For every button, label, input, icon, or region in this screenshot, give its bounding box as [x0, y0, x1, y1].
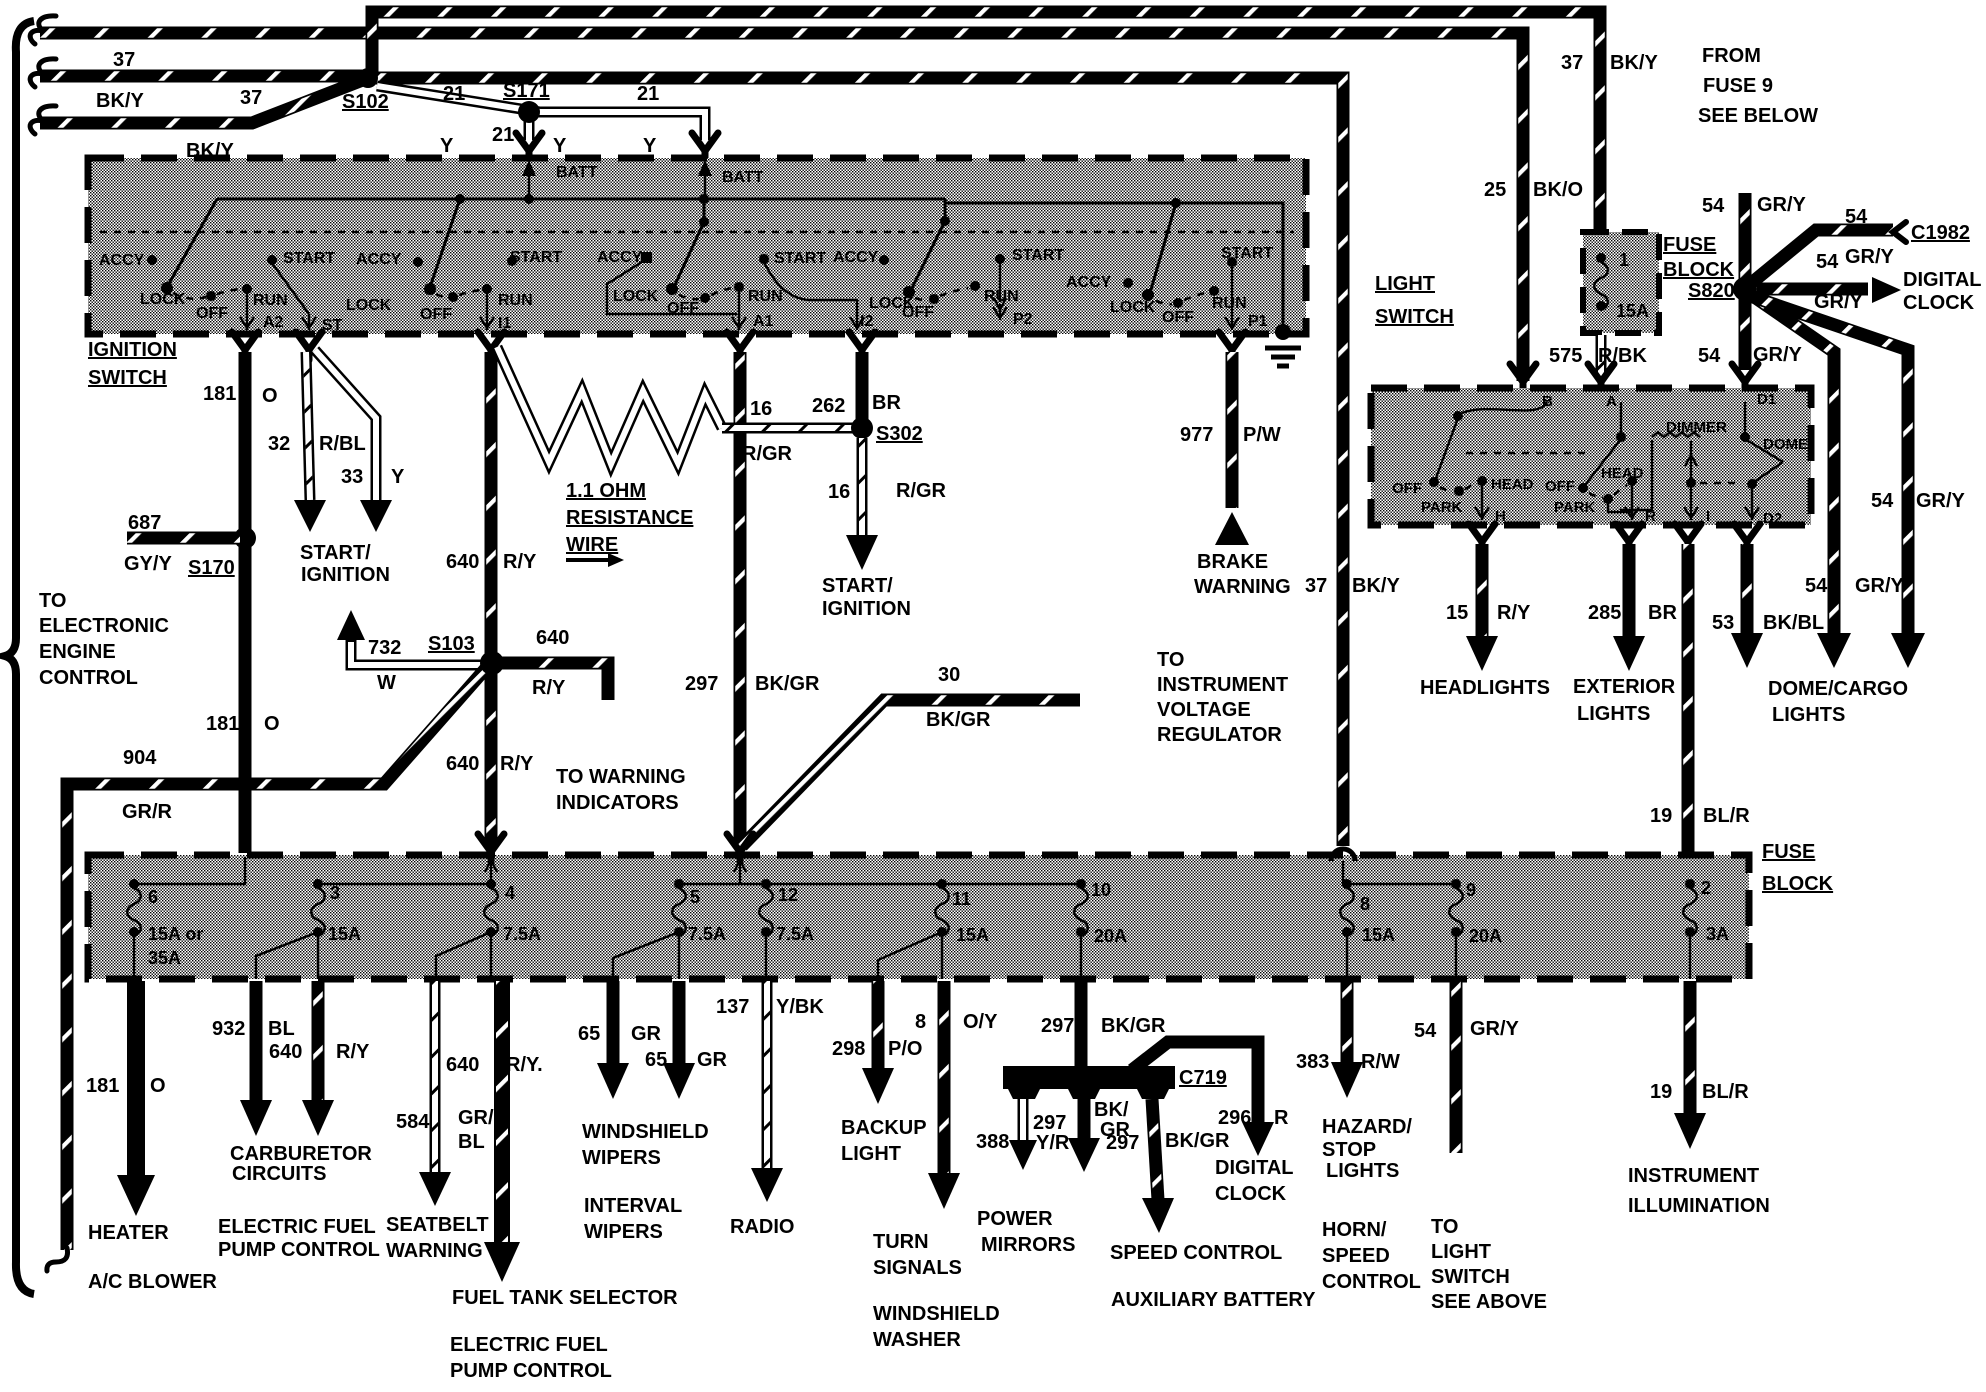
svg-text:ELECTRONIC: ELECTRONIC — [39, 615, 169, 637]
wire 137 Y/BK to radio — [716, 981, 824, 1238]
svg-text:1.1 OHM: 1.1 OHM — [566, 480, 646, 502]
svg-text:BL/R: BL/R — [1702, 1081, 1749, 1103]
svg-text:640: 640 — [269, 1041, 302, 1063]
svg-text:CIRCUITS: CIRCUITS — [232, 1163, 326, 1185]
svg-text:53: 53 — [1712, 612, 1734, 634]
svg-text:Y: Y — [440, 135, 454, 157]
svg-text:BRAKE: BRAKE — [1197, 551, 1268, 573]
splice S820 — [1688, 277, 1757, 302]
BATT terminal 2 — [698, 160, 764, 199]
svg-text:640: 640 — [446, 753, 479, 775]
svg-text:932: 932 — [212, 1018, 245, 1040]
svg-text:TO: TO — [1431, 1216, 1458, 1238]
resistance wire 1.1 OHM (zigzag) — [497, 347, 722, 567]
light switch box — [1371, 273, 1811, 525]
svg-text:20A: 20A — [1469, 926, 1502, 946]
wire from S102 up to top run and right to fuse 1 (37 BK/Y) — [372, 12, 1658, 236]
ignition switch gang 3 (A1) — [597, 222, 783, 330]
wire 297 BK/GR from A1 to fuse block — [685, 352, 820, 848]
label FROM FUSE 9 SEE BELOW — [1698, 45, 1818, 127]
svg-text:Y/BK: Y/BK — [776, 996, 824, 1018]
wire 21 Y from S102 to S171 and BATT feeds — [377, 83, 705, 157]
svg-text:383: 383 — [1296, 1051, 1329, 1073]
wire 65 GR to windshield wipers — [578, 981, 709, 1169]
svg-text:ACCY: ACCY — [833, 249, 879, 266]
svg-text:SEE BELOW: SEE BELOW — [1698, 105, 1818, 127]
svg-text:INTERVAL: INTERVAL — [584, 1195, 682, 1217]
svg-text:7.5A: 7.5A — [688, 924, 726, 944]
svg-text:FUEL TANK SELECTOR: FUEL TANK SELECTOR — [452, 1287, 678, 1309]
wire 297 BK/GR (short) below C719 — [1068, 1099, 1131, 1172]
wire 54 GR/Y from fuse 9 (to light switch above) — [1414, 981, 1547, 1313]
label TO ELECTRONIC ENGINE CONTROL — [39, 590, 169, 689]
wire 298 P/O to backup light — [832, 981, 927, 1165]
svg-text:START: START — [510, 249, 562, 266]
svg-text:TO: TO — [39, 590, 66, 612]
svg-text:298: 298 — [832, 1038, 865, 1060]
svg-text:ENGINE: ENGINE — [39, 641, 116, 663]
fuse 11 15A — [878, 879, 989, 979]
svg-text:297: 297 — [685, 673, 718, 695]
wire 383 R/W to hazard/stop lights — [1296, 981, 1421, 1293]
svg-text:POWER: POWER — [977, 1208, 1053, 1230]
svg-text:ACCY: ACCY — [1066, 274, 1112, 291]
svg-text:WIPERS: WIPERS — [582, 1147, 661, 1169]
fuse 9 20A — [1449, 879, 1502, 979]
svg-text:W: W — [377, 672, 396, 694]
svg-text:O: O — [264, 713, 280, 735]
svg-text:3A: 3A — [1706, 924, 1729, 944]
svg-text:37: 37 — [113, 49, 135, 71]
svg-text:AUXILIARY BATTERY: AUXILIARY BATTERY — [1111, 1289, 1316, 1311]
wire 54 GR/Y from S820 down to D1 — [1698, 296, 1803, 370]
svg-text:RUN: RUN — [498, 292, 533, 309]
wire 25 BK/O label (on wire A vertical) — [1484, 179, 1583, 201]
ignition switch gang 1 (A2/ST) — [99, 199, 343, 334]
svg-text:WIRE: WIRE — [566, 534, 618, 556]
svg-text:INDICATORS: INDICATORS — [556, 792, 679, 814]
svg-text:687: 687 — [128, 512, 161, 534]
svg-text:BACKUP: BACKUP — [841, 1117, 927, 1139]
svg-text:21: 21 — [443, 83, 465, 105]
svg-text:OFF: OFF — [902, 304, 934, 321]
ignition switch gang 5 (P2/P1) — [945, 198, 1283, 330]
connector at BATT 1 — [516, 133, 542, 161]
svg-text:IGNITION: IGNITION — [301, 564, 390, 586]
svg-text:HEADLIGHTS: HEADLIGHTS — [1420, 677, 1550, 699]
svg-text:SWITCH: SWITCH — [1431, 1266, 1510, 1288]
wire 53 BK/BL to dome/cargo — [1712, 544, 1908, 726]
fuse block (upper) box — [1583, 232, 1735, 333]
svg-text:PUMP CONTROL: PUMP CONTROL — [450, 1360, 612, 1382]
svg-text:584: 584 — [396, 1111, 430, 1133]
wire 640 R/Y to fuel tank selector — [446, 981, 678, 1382]
wire 732 W — [337, 610, 484, 694]
svg-text:575: 575 — [1549, 345, 1582, 367]
svg-text:54: 54 — [1698, 345, 1721, 367]
wire 37 BK/Y (row B into S102) — [30, 49, 366, 112]
svg-text:1: 1 — [1619, 250, 1629, 270]
svg-text:5: 5 — [690, 887, 700, 907]
svg-text:DOME/CARGO: DOME/CARGO — [1768, 678, 1908, 700]
svg-text:54: 54 — [1871, 490, 1894, 512]
label TO WARNING INDICATORS — [556, 766, 686, 814]
svg-text:A/C BLOWER: A/C BLOWER — [88, 1271, 217, 1293]
wire 15 R/Y to headlights — [1420, 544, 1550, 699]
svg-text:HORN/: HORN/ — [1322, 1219, 1387, 1241]
wire 584 GR/BL to seatbelt warning — [386, 981, 494, 1262]
svg-text:BL: BL — [268, 1018, 295, 1040]
svg-text:Y: Y — [553, 135, 567, 157]
svg-text:BATT: BATT — [722, 169, 764, 186]
svg-text:GR/: GR/ — [458, 1107, 494, 1129]
connector at ignition P1 — [1219, 332, 1245, 360]
svg-text:INSTRUMENT: INSTRUMENT — [1157, 674, 1288, 696]
svg-text:904: 904 — [123, 747, 157, 769]
svg-text:START: START — [283, 250, 335, 267]
wire 65 GR to interval wipers — [584, 981, 728, 1243]
wire 977 P/W to brake warning — [1180, 352, 1291, 598]
fuse 2 3A — [1683, 878, 1729, 979]
svg-text:37: 37 — [1305, 575, 1327, 597]
wire 54 GR/Y above S820 — [1702, 193, 1807, 282]
svg-text:6: 6 — [148, 887, 158, 907]
fuse 10 20A — [1074, 879, 1127, 979]
svg-text:WARNING: WARNING — [1194, 576, 1291, 598]
svg-text:S103: S103 — [428, 633, 475, 655]
svg-text:BR: BR — [1648, 602, 1677, 624]
svg-text:8: 8 — [1360, 894, 1370, 914]
wire 640 R/Y to carburetor circuits — [218, 981, 380, 1261]
splice S103 — [428, 633, 502, 673]
svg-text:BK/O: BK/O — [1533, 179, 1583, 201]
svg-text:4: 4 — [505, 883, 515, 903]
fuse 8 15A — [1340, 879, 1395, 979]
svg-text:3: 3 — [330, 883, 340, 903]
wire 181 O from A2 to fuse block — [203, 352, 280, 853]
svg-text:640: 640 — [446, 551, 479, 573]
svg-text:CONTROL: CONTROL — [39, 667, 138, 689]
svg-text:VOLTAGE: VOLTAGE — [1157, 699, 1251, 721]
svg-text:WARNING: WARNING — [386, 1240, 483, 1262]
wire 575 R/BK — [1549, 335, 1647, 372]
wire 687 GY/Y — [124, 512, 240, 575]
BATT terminal 1 — [522, 160, 598, 199]
svg-text:BK/Y: BK/Y — [1610, 52, 1658, 74]
svg-text:R/Y: R/Y — [503, 551, 537, 573]
connector at ignition I2 — [849, 332, 875, 360]
svg-text:CONTROL: CONTROL — [1322, 1271, 1421, 1293]
page continuation brace (left edge) — [5, 21, 34, 1294]
svg-text:15A: 15A — [1362, 925, 1395, 945]
svg-text:297: 297 — [1033, 1112, 1066, 1134]
ignition switch box — [88, 158, 1306, 389]
svg-text:15A: 15A — [1616, 301, 1649, 321]
connector at ignition I1 — [478, 332, 504, 360]
svg-text:IGNITION: IGNITION — [88, 339, 177, 361]
svg-text:65: 65 — [578, 1023, 600, 1045]
svg-text:TO: TO — [1157, 649, 1184, 671]
svg-text:GR: GR — [697, 1049, 728, 1071]
svg-text:R/Y.: R/Y. — [506, 1054, 543, 1076]
svg-text:START/: START/ — [300, 542, 371, 564]
svg-text:WINDSHIELD: WINDSHIELD — [582, 1121, 709, 1143]
svg-text:R: R — [1274, 1107, 1289, 1129]
light switch interior — [1392, 391, 1808, 527]
svg-text:C719: C719 — [1179, 1067, 1227, 1089]
splice S302 — [851, 417, 923, 445]
svg-text:S302: S302 — [876, 423, 923, 445]
svg-text:BK/GR: BK/GR — [926, 709, 991, 731]
wire 33 Y (start/ignition) — [300, 350, 405, 586]
svg-text:CARBURETOR: CARBURETOR — [230, 1143, 372, 1165]
svg-text:25: 25 — [1484, 179, 1506, 201]
svg-text:R/Y: R/Y — [500, 753, 534, 775]
connector at fuse block entry (297 BK/GR) — [727, 834, 753, 884]
svg-text:OFF: OFF — [1545, 478, 1575, 495]
svg-text:GR/R: GR/R — [122, 801, 173, 823]
svg-text:LOCK: LOCK — [613, 288, 659, 305]
svg-text:IGNITION: IGNITION — [822, 598, 911, 620]
svg-text:HEAD: HEAD — [1491, 476, 1534, 493]
svg-text:7.5A: 7.5A — [776, 924, 814, 944]
wire 19 BL/R from light switch I to fuse 2 — [1650, 544, 1750, 879]
svg-text:SWITCH: SWITCH — [88, 367, 167, 389]
ground (ignition switch P-circuit) — [1265, 324, 1301, 366]
splice S170 — [188, 527, 256, 579]
wire 37 BK/Y (top row A) — [30, 16, 1523, 381]
svg-text:TURN: TURN — [873, 1231, 929, 1253]
svg-text:RUN: RUN — [1212, 295, 1247, 312]
svg-text:LIGHTS: LIGHTS — [1577, 703, 1650, 725]
svg-text:DIGITAL: DIGITAL — [1903, 269, 1982, 291]
svg-text:R/Y: R/Y — [1497, 602, 1531, 624]
svg-text:EXTERIOR: EXTERIOR — [1573, 676, 1676, 698]
svg-text:BK/GR: BK/GR — [1165, 1130, 1230, 1152]
svg-text:BATT: BATT — [556, 164, 598, 181]
svg-text:STOP: STOP — [1322, 1139, 1376, 1161]
wire 181 O to heater / AC blower — [86, 981, 217, 1293]
svg-text:LIGHTS: LIGHTS — [1772, 704, 1845, 726]
svg-text:BK/Y: BK/Y — [96, 90, 144, 112]
svg-text:START/: START/ — [822, 575, 893, 597]
svg-text:SIGNALS: SIGNALS — [873, 1257, 962, 1279]
svg-text:732: 732 — [368, 637, 401, 659]
svg-text:SWITCH: SWITCH — [1375, 306, 1454, 328]
svg-text:LOCK: LOCK — [140, 291, 186, 308]
svg-text:START: START — [1012, 247, 1064, 264]
svg-text:BK/BL: BK/BL — [1763, 612, 1824, 634]
connector at BATT 2 — [692, 133, 718, 161]
wire 8 O/Y to turn signals — [873, 981, 1000, 1351]
svg-text:LIGHTS: LIGHTS — [1326, 1160, 1399, 1182]
connector at light switch R output — [1616, 524, 1642, 552]
svg-text:RUN: RUN — [984, 288, 1019, 305]
svg-text:33: 33 — [341, 466, 363, 488]
svg-text:SEATBELT: SEATBELT — [386, 1214, 489, 1236]
svg-text:RADIO: RADIO — [730, 1216, 794, 1238]
fuse 12 7.5A — [759, 879, 814, 979]
splice S102 — [342, 68, 389, 113]
svg-text:P1: P1 — [1248, 313, 1268, 330]
svg-text:ACCY: ACCY — [356, 251, 402, 268]
svg-text:P/W: P/W — [1243, 424, 1281, 446]
svg-text:S170: S170 — [188, 557, 235, 579]
svg-text:R/BL: R/BL — [319, 433, 366, 455]
connector at light switch I output — [1675, 524, 1701, 552]
fuse 4 7.5A — [436, 879, 541, 979]
splice S103 dot — [480, 651, 504, 675]
wire 16 R/GR down (start/ignition) — [822, 438, 947, 620]
wire 640 R/Y from I1 through S103 to fuse block — [446, 352, 537, 848]
svg-text:REGULATOR: REGULATOR — [1157, 724, 1282, 746]
svg-text:21: 21 — [637, 83, 659, 105]
svg-text:GR: GR — [631, 1023, 662, 1045]
svg-text:O: O — [150, 1075, 166, 1097]
svg-text:PARK: PARK — [1421, 499, 1463, 516]
svg-text:388: 388 — [976, 1131, 1009, 1153]
svg-text:ILLUMINATION: ILLUMINATION — [1628, 1195, 1770, 1217]
svg-text:OFF: OFF — [1392, 480, 1422, 497]
svg-text:BLOCK: BLOCK — [1762, 873, 1834, 895]
svg-text:GR/Y: GR/Y — [1814, 291, 1864, 313]
svg-text:ACCY: ACCY — [597, 249, 643, 266]
connector at ignition ST — [296, 332, 322, 360]
svg-text:START: START — [1221, 245, 1273, 262]
svg-text:C1982: C1982 — [1911, 222, 1970, 244]
svg-text:ELECTRIC FUEL: ELECTRIC FUEL — [218, 1216, 376, 1238]
svg-text:LOCK: LOCK — [346, 297, 392, 314]
svg-text:GR/Y: GR/Y — [1855, 575, 1905, 597]
svg-text:OFF: OFF — [196, 305, 228, 322]
svg-text:O: O — [262, 385, 278, 407]
svg-text:15A: 15A — [956, 925, 989, 945]
fuse 5 7.5A — [613, 879, 726, 979]
svg-text:Y: Y — [643, 135, 657, 157]
svg-text:181: 181 — [206, 713, 239, 735]
svg-text:Y: Y — [391, 466, 405, 488]
svg-text:35A: 35A — [148, 948, 181, 968]
wire 296 R to digital clock — [1132, 1042, 1294, 1205]
wire 54 GR/Y diagonal 2 to dome/cargo — [1750, 296, 1966, 668]
svg-text:RESISTANCE: RESISTANCE — [566, 507, 693, 529]
svg-text:15: 15 — [1446, 602, 1468, 624]
svg-text:DIGITAL: DIGITAL — [1215, 1157, 1294, 1179]
svg-text:RUN: RUN — [253, 292, 288, 309]
ignition gang dashed line — [100, 231, 1294, 234]
crossover hop at fuse block entry (37 BK/Y) — [1331, 849, 1355, 861]
svg-text:LOCK: LOCK — [1110, 299, 1156, 316]
svg-text:S102: S102 — [342, 91, 389, 113]
svg-text:RUN: RUN — [748, 288, 783, 305]
svg-text:Y/R: Y/R — [1036, 1132, 1070, 1154]
svg-text:19: 19 — [1650, 1081, 1672, 1103]
svg-text:21: 21 — [492, 124, 514, 146]
svg-text:8: 8 — [915, 1011, 926, 1033]
wire 297 BK/GR to speed control — [1106, 1099, 1316, 1311]
svg-text:B: B — [1542, 393, 1553, 410]
svg-text:2: 2 — [1701, 878, 1711, 898]
svg-text:OFF: OFF — [667, 300, 699, 317]
svg-text:BL/R: BL/R — [1703, 805, 1750, 827]
svg-text:CLOCK: CLOCK — [1215, 1183, 1287, 1205]
wire 32 R/BL (start/ignition) — [268, 352, 366, 532]
svg-text:LIGHT: LIGHT — [1375, 273, 1435, 295]
svg-text:GR/Y: GR/Y — [1757, 194, 1807, 216]
svg-text:FUSE: FUSE — [1762, 841, 1815, 863]
svg-text:ACCY: ACCY — [99, 252, 145, 269]
wire 285 BR to exterior lights — [1573, 544, 1677, 725]
svg-text:16: 16 — [750, 398, 772, 420]
svg-text:R/W: R/W — [1361, 1051, 1400, 1073]
connector at light switch D2 output — [1734, 524, 1760, 552]
connector C719 — [1003, 1066, 1227, 1099]
wire 262 BR from I2 to S302 — [812, 352, 901, 420]
connector at light switch D1 — [1732, 364, 1758, 392]
wire 54 GR/Y to digital clock (arrow right) — [1757, 269, 1982, 314]
svg-text:BK/GR: BK/GR — [755, 673, 820, 695]
svg-text:37: 37 — [1561, 52, 1583, 74]
svg-text:54: 54 — [1816, 251, 1839, 273]
connector at ignition A1 — [727, 332, 753, 360]
fuse 3 15A — [256, 879, 361, 979]
svg-text:12: 12 — [778, 885, 798, 905]
svg-text:WIPERS: WIPERS — [584, 1221, 663, 1243]
svg-text:HEATER: HEATER — [88, 1222, 169, 1244]
svg-text:LIGHT: LIGHT — [841, 1143, 901, 1165]
svg-text:A1: A1 — [753, 313, 774, 330]
svg-text:9: 9 — [1466, 880, 1476, 900]
svg-text:LIGHT: LIGHT — [1431, 1241, 1491, 1263]
wire from S102 right run down to fuse block (37 BK/Y) — [368, 78, 1400, 846]
svg-text:54: 54 — [1845, 206, 1868, 228]
wire 297 BK/GR from fuse 10 to C719 — [1041, 981, 1166, 1068]
svg-text:BK/GR: BK/GR — [1101, 1015, 1166, 1037]
svg-text:A: A — [1606, 393, 1617, 410]
svg-text:54: 54 — [1702, 195, 1725, 217]
svg-text:640: 640 — [446, 1054, 479, 1076]
wire 54 GR/Y to C1982 — [1749, 206, 1970, 285]
svg-text:137: 137 — [716, 996, 749, 1018]
svg-text:30: 30 — [938, 664, 960, 686]
svg-text:262: 262 — [812, 395, 845, 417]
wire 37 BK/Y (row C diagonal to S102) — [30, 78, 368, 162]
fuse 6 15A/35A — [127, 879, 203, 979]
connector at fuse block entry (640 R/Y) — [478, 834, 504, 884]
svg-text:FROM: FROM — [1702, 45, 1761, 67]
svg-text:285: 285 — [1588, 602, 1621, 624]
ignition switch gang 2 (I1) — [346, 199, 562, 332]
svg-text:I2: I2 — [860, 313, 873, 330]
svg-text:WINDSHIELD: WINDSHIELD — [873, 1303, 1000, 1325]
svg-text:MIRRORS: MIRRORS — [981, 1234, 1075, 1256]
svg-text:WASHER: WASHER — [873, 1329, 961, 1351]
svg-text:R/GR: R/GR — [742, 443, 793, 465]
svg-text:32: 32 — [268, 433, 290, 455]
wire 54 GR/Y diagonal 1 to dome/cargo — [1750, 294, 1905, 668]
svg-text:S171: S171 — [503, 80, 550, 102]
svg-text:HAZARD/: HAZARD/ — [1322, 1116, 1412, 1138]
svg-text:S820: S820 — [1688, 280, 1735, 302]
svg-text:SPEED CONTROL: SPEED CONTROL — [1110, 1242, 1282, 1264]
svg-text:A2: A2 — [263, 314, 284, 331]
svg-text:BR: BR — [872, 392, 901, 414]
svg-text:296: 296 — [1218, 1107, 1251, 1129]
svg-text:BL: BL — [458, 1131, 485, 1153]
svg-text:PUMP CONTROL: PUMP CONTROL — [218, 1239, 380, 1261]
svg-text:I: I — [1706, 508, 1710, 525]
wire 30 BK/GR branch — [742, 664, 1080, 846]
